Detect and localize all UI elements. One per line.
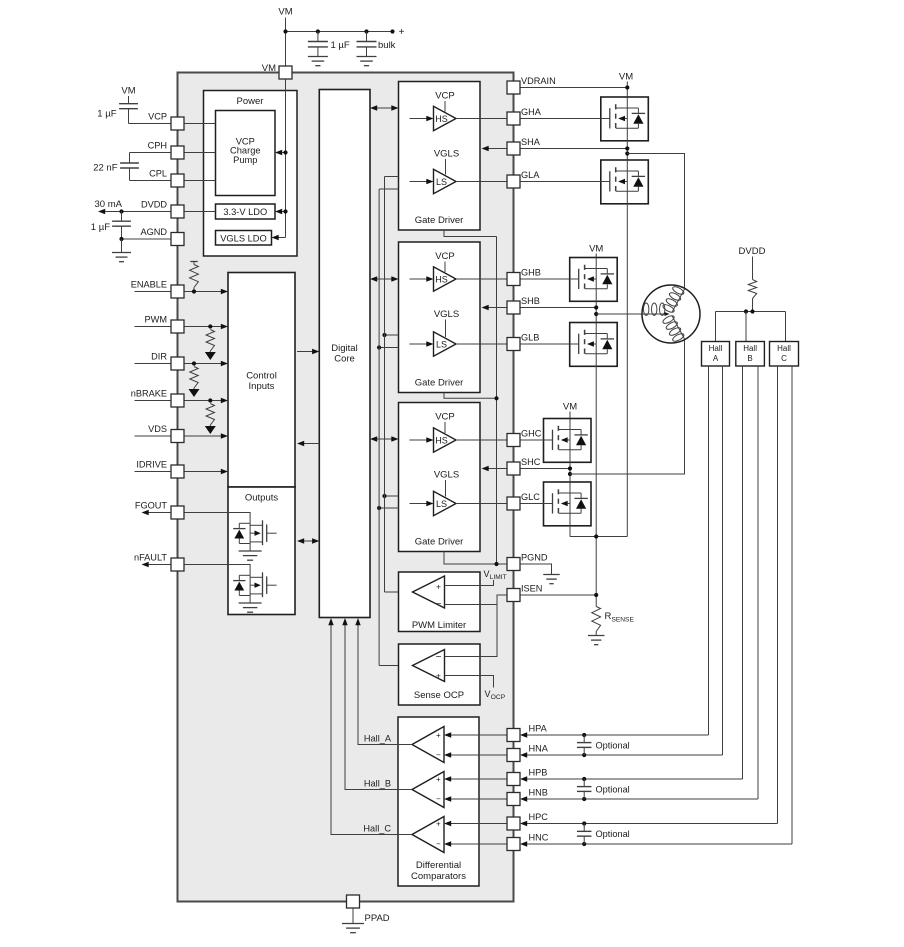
wire driver C ground stub <box>444 552 507 565</box>
IC body (device outline) <box>178 73 514 902</box>
svg-text:−: − <box>436 652 442 663</box>
node VM (top supply label) <box>278 7 292 18</box>
svg-text:VM: VM <box>589 244 603 255</box>
node VCP label (C high side) <box>435 412 455 434</box>
node VM (phase B supply) <box>589 244 603 258</box>
svg-text:Hall: Hall <box>709 344 723 353</box>
block Hall A sensor <box>702 342 730 367</box>
svg-text:VCP: VCP <box>435 251 455 262</box>
svg-text:Inputs: Inputs <box>249 381 275 392</box>
svg-text:PPAD: PPAD <box>365 913 390 924</box>
wire Hall C outputs down <box>778 366 793 844</box>
wire HS B output to GHB <box>456 278 507 280</box>
wire VDS external lead <box>135 435 172 437</box>
op-amp LS gate drive buffer (C) <box>434 491 457 515</box>
wire VM to charge pump with arrow <box>275 150 288 155</box>
wire IDRIVE external lead <box>135 471 172 473</box>
transistor Q7 high-side C (power MOSFET with body diode) <box>544 419 592 463</box>
svg-text:Digital: Digital <box>331 343 357 354</box>
op-amp HS gate drive buffer (B) <box>434 267 457 291</box>
wire Hall_C output to Digital Core <box>328 618 412 835</box>
pin IDRIVE <box>136 460 184 479</box>
svg-text:SHC: SHC <box>521 457 541 467</box>
wire FGOUT to output FET <box>184 513 250 524</box>
wire VLIMIT to + input <box>445 580 494 586</box>
wire Q8 source to sense rail <box>569 526 571 537</box>
svg-text:A: A <box>713 354 719 363</box>
pin GLA <box>507 170 540 188</box>
svg-text:Gate Driver: Gate Driver <box>415 537 464 548</box>
op-amp Hall comparator Hall_B <box>412 772 444 808</box>
svg-text:CPH: CPH <box>148 141 167 151</box>
pin AGND <box>140 227 184 246</box>
wire LS B output to GLB <box>456 343 507 345</box>
wire Digital Core to Control Inputs (arrow left) <box>297 441 319 446</box>
svg-text:ISEN: ISEN <box>521 584 542 594</box>
wire DIR to Control Inputs <box>184 361 228 366</box>
block Sense OCP <box>399 644 481 705</box>
svg-text:−: − <box>436 599 442 610</box>
svg-text:Power: Power <box>237 96 264 107</box>
wire LS input arrow (B) <box>410 341 434 346</box>
node VOCP reference <box>485 689 506 701</box>
ground (Q2 nFAULT source) <box>239 603 262 612</box>
block Digital Core <box>319 90 370 618</box>
block Hall C sensor <box>770 342 799 367</box>
svg-text:VDS: VDS <box>148 424 167 434</box>
wire VCP cap to VCP pin <box>129 123 172 125</box>
svg-text:GHA: GHA <box>521 107 542 117</box>
wire VDRAIN to VM node <box>520 87 627 89</box>
svg-text:Optional: Optional <box>596 740 630 750</box>
svg-text:GLC: GLC <box>521 492 540 502</box>
pin VCP <box>148 112 184 131</box>
capacitor optional filter C <box>577 821 630 846</box>
resistor internal pull-down (nBRAKE) <box>205 398 216 434</box>
block Power <box>204 91 298 257</box>
op-amp HS gate drive buffer (C) <box>434 428 457 452</box>
wire VOCP to + input <box>445 676 494 688</box>
ground (PGND) <box>543 575 560 584</box>
svg-text:HPB: HPB <box>529 768 548 778</box>
svg-text:PWM Limiter: PWM Limiter <box>412 620 466 631</box>
block Outputs <box>228 487 295 615</box>
svg-text:Comparators: Comparators <box>411 871 466 882</box>
svg-text:B: B <box>747 354 752 363</box>
ground (PPAD) <box>342 924 364 933</box>
transistor Q1 FGOUT open-drain output FET with zener <box>233 520 276 551</box>
svg-text:Optional: Optional <box>596 829 630 839</box>
svg-text:Core: Core <box>334 354 355 365</box>
wire DVDD pin to 3.3-V LDO <box>184 211 216 213</box>
svg-text:VGLS LDO: VGLS LDO <box>220 233 267 243</box>
svg-text:LS: LS <box>436 177 447 187</box>
wire SHB sense into driver <box>482 305 508 310</box>
svg-text:+: + <box>399 27 405 38</box>
wire nFAULT external lead with arrow <box>142 562 172 567</box>
svg-text:DVDD: DVDD <box>141 200 167 210</box>
node VGLS label (C low side) <box>434 470 459 497</box>
pin DIR <box>151 352 184 371</box>
wire LS input arrow (A) <box>410 179 434 184</box>
svg-text:DIR: DIR <box>151 352 167 362</box>
pin HPA <box>507 724 548 742</box>
pin GLC <box>507 492 540 510</box>
wire PWM-limit feed into driver C <box>382 494 398 498</box>
transistor Q2 nFAULT open-drain output FET with zener <box>233 572 276 603</box>
svg-text:IDRIVE: IDRIVE <box>136 460 167 470</box>
ground (under 1uF cap) <box>308 57 328 66</box>
wire Digital Core to Gate Driver C (double arrow) <box>370 436 399 441</box>
svg-text:R: R <box>605 611 612 622</box>
svg-text:+: + <box>436 775 441 784</box>
svg-text:HNB: HNB <box>529 788 548 798</box>
wire PWM-limit feed into driver A <box>385 176 399 178</box>
svg-text:SHA: SHA <box>521 137 541 147</box>
node VCP label (B high side) <box>435 251 455 272</box>
capacitor 1uF (VCP) <box>97 96 138 124</box>
transistor Q6 low-side B (power MOSFET with body diode) <box>570 323 618 367</box>
svg-text:DVDD: DVDD <box>739 246 766 257</box>
svg-text:VGLS: VGLS <box>434 470 459 481</box>
wire Hall_B - input <box>444 796 507 801</box>
wire driver A ground stub <box>444 230 497 237</box>
node VM (phase C supply) <box>563 402 577 419</box>
svg-text:+: + <box>436 820 441 829</box>
wire low-side common sense rail <box>570 534 627 538</box>
svg-text:bulk: bulk <box>378 40 396 51</box>
wire GHA to Q3 gate <box>520 118 601 120</box>
op-amp U2 PWM limiter comparator <box>413 576 445 610</box>
pin SHC <box>507 457 541 475</box>
wire driver ground chain to PGND <box>494 237 498 567</box>
svg-text:+: + <box>436 671 441 681</box>
wire Hall_C + input <box>444 821 507 826</box>
svg-text:Hall: Hall <box>743 344 757 353</box>
svg-text:3.3-V LDO: 3.3-V LDO <box>223 207 267 217</box>
wire HS input arrow (A) <box>410 116 434 121</box>
pin VM (top) <box>262 63 292 79</box>
svg-text:Sense OCP: Sense OCP <box>414 690 464 701</box>
resistor internal pull-down (DIR) <box>189 361 200 397</box>
svg-text:Hall_C: Hall_C <box>363 824 391 834</box>
wire OCP feed into driver C <box>377 506 399 510</box>
wire HPA from Hall sensor <box>520 732 709 737</box>
wire Hall_A + input <box>444 732 507 737</box>
svg-text:Gate Driver: Gate Driver <box>415 215 464 226</box>
wire PGND to ground <box>520 564 552 575</box>
wire Hall_B + input <box>444 776 507 781</box>
transistor Q4 low-side A (power MOSFET with body diode) <box>601 160 649 204</box>
wire Hall_A output to Digital Core <box>355 618 412 745</box>
pin HPC <box>507 812 548 830</box>
wire GLB to Q6 gate <box>520 343 570 345</box>
pin ISEN <box>507 584 542 602</box>
wire Hall B outputs down <box>743 366 759 799</box>
wire HS input arrow (C) <box>410 437 434 442</box>
svg-text:VGLS: VGLS <box>434 309 459 320</box>
svg-text:1 µF: 1 µF <box>331 40 350 51</box>
capacitor 1uF (DVDD) <box>91 212 131 240</box>
block Control Inputs <box>228 273 295 488</box>
svg-text:Gate Driver: Gate Driver <box>415 378 464 389</box>
capacitor 22nF (flying cap CPH-CPL) <box>93 153 139 181</box>
wire DIR external lead <box>135 363 172 365</box>
node Hall_A label <box>364 734 392 744</box>
svg-text:LIMIT: LIMIT <box>490 574 507 581</box>
resistor internal pull-up (ENABLE) <box>190 262 199 294</box>
wire SHC sense into driver <box>482 466 508 471</box>
block PWM Limiter <box>399 572 481 632</box>
node Hall_B label <box>364 779 391 789</box>
node VM (phase A supply) <box>619 72 633 98</box>
ground (Q1 FGOUT source) <box>239 551 262 560</box>
node VLIMIT reference <box>484 569 507 581</box>
svg-text:−: − <box>436 795 441 804</box>
wire ISEN to sense node <box>520 593 598 597</box>
block Gate Driver C <box>399 403 481 552</box>
svg-text:PWM: PWM <box>145 315 167 325</box>
pin GLB <box>507 333 539 351</box>
wire Hall A outputs down <box>709 366 723 755</box>
pin SHA <box>507 137 541 155</box>
pin GHA <box>507 107 542 125</box>
node 30 mA (DVDD load arrow) <box>95 199 123 210</box>
node VGLS label (A low side) <box>434 149 459 175</box>
block Differential Comparators <box>398 717 479 886</box>
svg-text:nFAULT: nFAULT <box>134 553 167 563</box>
resistor RSENSE <box>592 607 635 636</box>
wire VM top rail <box>286 31 393 33</box>
svg-text:Hall_B: Hall_B <box>364 779 391 789</box>
svg-text:VDRAIN: VDRAIN <box>521 76 556 86</box>
wire ENABLE to Control Inputs <box>184 289 228 294</box>
wire PWM to Control Inputs <box>184 324 228 329</box>
op-amp Hall comparator Hall_C <box>412 817 444 853</box>
wire Q4 source down to sense node <box>626 204 628 537</box>
ground (AGND) <box>112 239 131 262</box>
wire OCP feed into driver B <box>377 345 399 349</box>
pin SHB <box>507 296 540 314</box>
svg-text:VCP: VCP <box>435 412 455 423</box>
wire Digital Core to Gate Driver B (double arrow) <box>370 276 399 281</box>
pin HPB <box>507 768 547 786</box>
block VCP Charge Pump <box>216 111 276 196</box>
node + (bulk positive terminal) <box>399 27 405 38</box>
svg-text:Hall_A: Hall_A <box>364 734 392 744</box>
svg-text:−: − <box>436 751 441 760</box>
capacitor bulk <box>357 32 396 57</box>
wire phase C to motor <box>570 339 685 474</box>
op-amp Hall comparator Hall_A <box>412 727 444 763</box>
motor M1 (BLDC three-phase) <box>642 284 700 344</box>
svg-text:GHB: GHB <box>521 268 541 278</box>
wire phase B to motor <box>596 313 642 315</box>
svg-text:−: − <box>436 840 441 849</box>
wire HS input arrow (B) <box>410 276 434 281</box>
wire ENABLE external lead <box>135 291 172 293</box>
svg-text:VGLS: VGLS <box>434 149 459 160</box>
wire driver B ground stub <box>444 393 497 399</box>
svg-text:LS: LS <box>436 339 447 349</box>
wire Q6 source down to RSENSE <box>595 366 597 606</box>
wire DVDD rail to Hall sensors <box>716 309 786 341</box>
wire HS A output to GHA <box>456 118 507 120</box>
pin VDRAIN <box>507 76 556 94</box>
wire HNA from Hall sensor <box>520 752 723 757</box>
wire CPL pin to charge pump <box>184 180 216 182</box>
svg-text:VM: VM <box>262 63 276 74</box>
node DVDD supply <box>739 246 766 257</box>
pin ENABLE <box>131 280 184 299</box>
pin VDS <box>148 424 184 443</box>
wire GLC to Q8 gate <box>520 503 544 505</box>
wire Hall_B output to Digital Core <box>342 618 412 790</box>
wire PPAD to ground <box>352 908 354 924</box>
wire IDRIVE to Control Inputs <box>184 469 228 474</box>
wire GHB to Q5 gate <box>520 278 570 280</box>
svg-text:VCP: VCP <box>148 112 167 122</box>
wire HNB from Hall sensor <box>520 796 758 801</box>
svg-text:HS: HS <box>435 435 448 445</box>
wire AGND external <box>122 238 172 240</box>
wire Outputs to Digital Core (double arrow) <box>297 538 319 543</box>
transistor Q8 low-side C (power MOSFET with body diode) <box>544 482 592 526</box>
wire nFAULT to output FET <box>184 565 250 576</box>
svg-text:V: V <box>484 569 490 579</box>
resistor internal pull-down (PWM) <box>205 324 216 360</box>
svg-text:Control: Control <box>246 371 277 382</box>
wire nBRAKE external lead <box>135 400 172 402</box>
wire LS A output to GLA <box>456 181 507 183</box>
wire VM internal feed <box>285 79 287 238</box>
transistor Q5 high-side B (power MOSFET with body diode) <box>570 258 618 302</box>
junction dot AGND <box>119 237 123 241</box>
svg-text:SENSE: SENSE <box>612 616 635 623</box>
wire VM to 3.3-V LDO with arrow <box>275 209 288 214</box>
svg-text:PGND: PGND <box>521 553 548 563</box>
svg-text:1 µF: 1 µF <box>97 109 116 120</box>
wire SHA sense into driver <box>482 146 508 151</box>
pin HNA <box>507 744 549 762</box>
node VCP label (A high side) <box>435 91 455 112</box>
wire GLA to Q4 gate <box>520 181 601 183</box>
wire VCP pin to charge pump <box>184 123 216 125</box>
svg-text:VM: VM <box>121 86 135 97</box>
pin nBRAKE <box>131 389 184 408</box>
wire VM to VGLS LDO with arrow <box>272 235 286 240</box>
svg-text:HS: HS <box>435 114 448 124</box>
wire PWM-limit feed into driver B <box>382 333 398 337</box>
capacitor 1uF (VM bypass) <box>308 32 350 57</box>
wire CPL pin <box>130 180 172 182</box>
svg-text:CPL: CPL <box>149 169 167 179</box>
pin GHC <box>507 429 542 447</box>
op-amp U3 sense OCP comparator <box>413 650 445 682</box>
svg-text:Hall: Hall <box>777 344 791 353</box>
block 3.3-V LDO <box>216 204 276 219</box>
svg-text:Outputs: Outputs <box>245 493 279 504</box>
svg-text:C: C <box>781 354 787 363</box>
junction dots on VM rail <box>283 29 394 33</box>
svg-text:OCP: OCP <box>491 694 506 701</box>
block Hall B sensor <box>736 342 765 367</box>
wire SHA to phase A node <box>520 141 629 160</box>
wire VM vertical to VM pin <box>285 18 287 67</box>
wire SHC to phase C node <box>520 462 572 482</box>
svg-text:HPA: HPA <box>529 724 548 734</box>
block Gate Driver B <box>399 242 481 393</box>
pin nFAULT <box>134 553 184 572</box>
pin GHB <box>507 268 541 286</box>
transistor Q3 high-side A (power MOSFET with body diode) <box>601 97 649 141</box>
wire nBRAKE to Control Inputs <box>184 398 228 403</box>
svg-text:HS: HS <box>435 274 448 284</box>
pin PGND <box>507 553 548 571</box>
pin CPL <box>149 169 184 188</box>
pin CPH <box>148 141 184 160</box>
junction dot DVDD <box>119 209 123 213</box>
svg-text:LS: LS <box>436 499 447 509</box>
wire LS C output to GLC <box>456 503 507 505</box>
ground (RSENSE) <box>588 636 605 645</box>
svg-text:VM: VM <box>278 7 292 18</box>
ground (under bulk cap) <box>357 57 377 66</box>
wire SHB to phase B node <box>520 301 598 322</box>
wire Hall_A - input <box>444 752 507 757</box>
wire FGOUT external lead with arrow <box>142 510 172 515</box>
wire OCP feed into driver A <box>379 188 398 190</box>
wire Hall_C - input <box>444 841 507 846</box>
wire DVDD external <box>101 211 172 213</box>
wire Digital Core to Gate Driver A (double arrow) <box>370 105 399 110</box>
svg-text:FGOUT: FGOUT <box>135 501 168 511</box>
wire PWM limiter output rail (to LS inputs) <box>385 177 413 593</box>
wire VDS to Control Inputs <box>184 433 228 438</box>
node VGLS label (B low side) <box>434 309 459 337</box>
op-amp LS gate drive buffer (B) <box>434 332 457 356</box>
svg-text:22 nF: 22 nF <box>93 163 117 174</box>
capacitor optional filter A <box>577 733 630 757</box>
pin DVDD <box>141 200 184 219</box>
capacitor optional filter B <box>577 777 630 801</box>
wire HPC from Hall sensor <box>520 821 778 826</box>
svg-text:ENABLE: ENABLE <box>131 280 167 290</box>
svg-text:+: + <box>436 731 441 740</box>
svg-text:GLA: GLA <box>521 170 540 180</box>
pin FGOUT <box>135 501 184 520</box>
wire ISEN internal feed <box>445 595 508 657</box>
wire PWM external lead <box>135 326 172 328</box>
block Gate Driver A <box>399 82 481 231</box>
svg-text:1 µF: 1 µF <box>91 222 110 233</box>
wire CPH pin to charge pump <box>184 152 216 154</box>
pin HNB <box>507 788 548 806</box>
resistor Hall pull-up <box>748 257 756 312</box>
wire HPB from Hall sensor <box>520 776 743 781</box>
svg-text:+: + <box>436 581 441 591</box>
op-amp HS gate drive buffer (A) <box>434 106 457 130</box>
wire HS C output to GHC <box>456 439 507 441</box>
wire GHC to Q7 gate <box>520 439 544 441</box>
svg-text:V: V <box>485 689 491 699</box>
svg-text:HNA: HNA <box>529 744 549 754</box>
wire sense OCP output rail (to drivers) <box>379 189 412 666</box>
node VM (VCP cap supply) <box>121 86 135 97</box>
svg-text:GLB: GLB <box>521 333 539 343</box>
svg-text:30 mA: 30 mA <box>95 199 123 210</box>
svg-text:HPC: HPC <box>529 812 549 822</box>
